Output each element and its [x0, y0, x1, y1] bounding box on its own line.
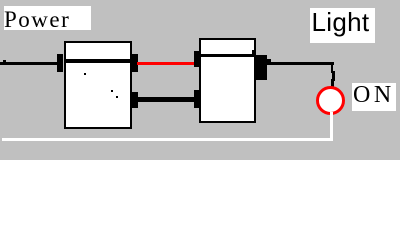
- vertical wire down to light, segment 3: [331, 79, 334, 87]
- terminal T6 (right terminal of switch box): [256, 55, 267, 80]
- wire from left edge to power supply input: [0, 62, 57, 66]
- vertical wire down to light, segment 2: [332, 71, 335, 81]
- white return wire vertical from light: [330, 112, 334, 141]
- divider bar inside switch box: [201, 54, 254, 57]
- red wire from power supply to switch box: [137, 62, 199, 65]
- component box U1 (power supply): [64, 41, 132, 129]
- speck 3 inside power supply: [116, 96, 118, 98]
- component box U2 (switch box): [199, 38, 256, 123]
- label "ON": [353, 83, 395, 107]
- label "Power" background: [4, 6, 91, 30]
- label "Light" background: [310, 8, 375, 43]
- vertical wire down to light, segment 1: [331, 62, 334, 73]
- terminal T4 (lower left terminal of switch box): [194, 90, 199, 108]
- terminal T5 (upper left terminal of switch box): [194, 51, 199, 67]
- terminal T1 (left terminal of power supply): [57, 54, 64, 72]
- light bulb L1 (red circle): [316, 86, 345, 115]
- lower black wire between boxes: [137, 97, 194, 102]
- label "Light": [312, 9, 370, 35]
- label "Power": [4, 8, 70, 31]
- notch step on output wire: [267, 59, 272, 64]
- speck 1 inside power supply: [84, 73, 86, 75]
- wire from switch box to light branch: [267, 62, 335, 65]
- terminal T2 (upper right terminal of power supply): [131, 54, 138, 72]
- divider bar inside power supply: [65, 59, 130, 63]
- solder blip on left wire: [3, 60, 7, 65]
- white return wire horizontal along bottom: [2, 138, 333, 141]
- speck 2 inside power supply: [111, 90, 113, 92]
- tick inside switch box near right edge: [252, 50, 255, 55]
- label "ON" background: [352, 83, 396, 111]
- terminal T3 (lower right terminal of power supply): [131, 92, 138, 108]
